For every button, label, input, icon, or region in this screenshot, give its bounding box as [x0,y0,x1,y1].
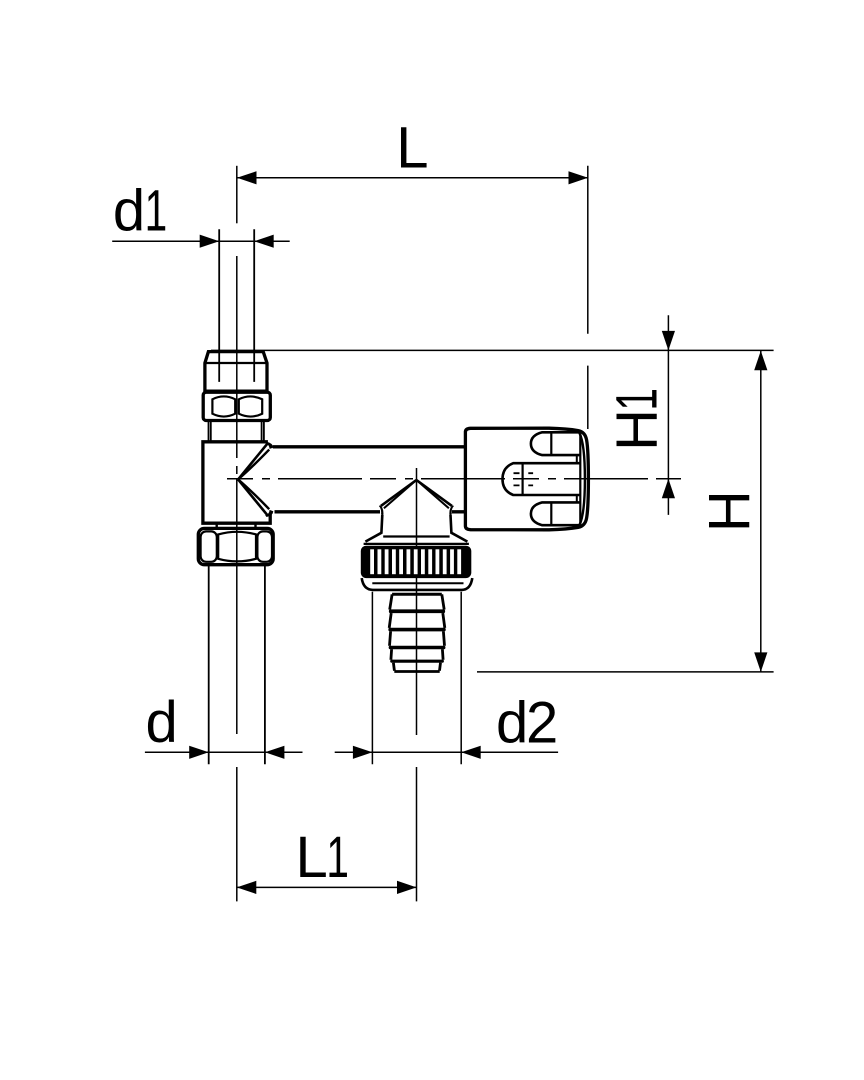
centerline horizontal [227,478,681,480]
svg-text:H: H [697,490,762,532]
dimension L [237,116,588,429]
dimension d2 [335,592,559,765]
dimension H1 [604,315,675,515]
outlet cone [365,480,467,542]
centerline vertical left pipe [236,256,238,901]
svg-text:L: L [396,116,428,181]
supply pipe walls [219,229,254,352]
neck below body [217,523,256,529]
centerline vertical outlet [416,468,418,901]
horizontal arm [273,445,465,448]
handle knob [465,428,588,530]
svg-text:1: 1 [145,178,168,243]
dimension d [145,690,303,759]
hose barb [388,594,445,671]
hex nut bottom [198,528,273,564]
svg-text:d: d [113,178,145,243]
svg-text:1: 1 [326,825,349,890]
tail pipe walls [209,565,265,765]
svg-text:d: d [496,691,528,756]
valve body [203,442,273,523]
compression cap [205,352,267,392]
neck below top nut [209,421,264,443]
hex nut top [203,392,270,420]
knurled ring [361,544,473,590]
svg-text:2: 2 [526,691,558,756]
svg-text:1: 1 [604,388,669,411]
svg-text:H: H [604,409,669,451]
dimension L1 [237,825,417,894]
dimension d1 [112,178,290,248]
H1/H top reference line [211,349,774,351]
dimension H [477,351,774,672]
svg-text:d: d [146,690,178,755]
svg-text:L: L [296,825,328,890]
